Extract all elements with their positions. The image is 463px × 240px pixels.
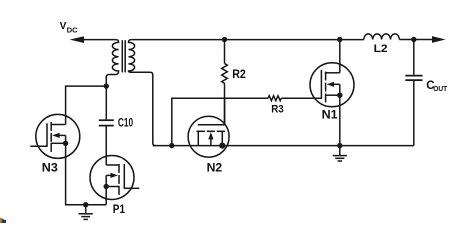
wire R2 to N2 gate (224, 83, 226, 125)
wire C10 branch from primary (105, 76, 107, 119)
ground (left) (79, 205, 93, 220)
svg-text:C10: C10 (118, 118, 133, 130)
transistor N1 (310, 40, 354, 107)
transformer primary winding (106, 40, 118, 80)
transistor N3 (30, 114, 80, 158)
wire COUT bottom (413, 81, 415, 146)
wire bottom rail (153, 145, 414, 147)
VDC input arrow (70, 36, 116, 43)
wire gate-drive horizontal (172, 98, 268, 145)
junction node N1 source at bottom rail (337, 143, 342, 148)
svg-text:OUT: OUT (433, 84, 447, 93)
corner artifact (0, 218, 6, 224)
svg-text:DC: DC (67, 27, 78, 34)
transistor N2 (188, 98, 229, 157)
wire rail to R2 (224, 40, 226, 64)
svg-text:N1: N1 (322, 109, 339, 121)
capacitor COUT (405, 76, 422, 81)
transformer core (122, 40, 125, 72)
junction node on rail at COUT (411, 37, 416, 42)
transformer secondary winding (129, 40, 156, 146)
transistor P1 (90, 156, 139, 205)
junction node on rail at N1 drain (337, 37, 342, 42)
wire N1 source down (339, 95, 341, 145)
svg-text:R3: R3 (271, 103, 283, 115)
node VDC label (60, 21, 78, 35)
output arrow (432, 36, 446, 43)
junction node at C10 branch (104, 83, 109, 88)
wire COUT top (413, 40, 415, 75)
junction node on rail at R2 (222, 37, 227, 42)
wire rail after L2 (399, 39, 432, 41)
capacitor C10 (99, 120, 114, 125)
capacitor COUT label (426, 80, 447, 93)
wire R3 to N1 gate (281, 97, 321, 99)
svg-text:R2: R2 (232, 69, 246, 81)
svg-text:N3: N3 (42, 162, 58, 174)
inductor L2 (364, 34, 400, 40)
resistor R3 (268, 96, 281, 101)
svg-text:L2: L2 (374, 43, 388, 55)
svg-text:N2: N2 (207, 162, 223, 174)
junction node at ground (83, 202, 88, 207)
svg-text:P1: P1 (113, 204, 126, 216)
wire N3 source to ground rail (66, 143, 107, 204)
resistor R2 (222, 64, 228, 84)
ground (right) (333, 146, 347, 161)
wire C10 to P1 drain (105, 126, 107, 165)
wire top rail (131, 39, 363, 41)
junction node on bottom wire (169, 143, 174, 148)
wire to N3 drain (66, 86, 107, 124)
